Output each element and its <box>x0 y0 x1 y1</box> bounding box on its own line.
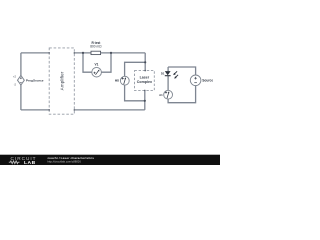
voltmeter V1 <box>92 62 102 77</box>
wire laser bottom drop <box>144 90 146 110</box>
svg-text:ProgSource: ProgSource <box>26 79 44 83</box>
svg-text:Complex: Complex <box>137 80 152 84</box>
svg-text:zouzhi / Laser characteristics: zouzhi / Laser characteristics <box>47 156 94 160</box>
wire node B bottom rail <box>21 109 145 111</box>
node junction laser top <box>144 61 146 63</box>
pin dot amplifier right bottom <box>74 109 76 111</box>
svg-text:A1: A1 <box>159 93 163 97</box>
behavioral source ProgSource <box>13 75 44 87</box>
pin dot amplifier left bottom <box>48 109 50 111</box>
footer bar <box>0 155 220 165</box>
photodiode D1 <box>161 71 178 79</box>
svg-text:LAB: LAB <box>24 160 36 165</box>
svg-text:V1: V1 <box>94 62 98 66</box>
wire meter branch horizontal top <box>125 62 146 76</box>
wire left rail <box>20 53 22 110</box>
svg-text:http://circuitlab.com/c88826: http://circuitlab.com/c88826 <box>47 160 81 164</box>
voltmeter MD across laser <box>115 76 129 85</box>
svg-text:Amplifier: Amplifier <box>59 71 64 90</box>
node junction left of R <box>82 52 84 54</box>
ammeter A1 <box>159 90 172 99</box>
resistor R test <box>90 41 102 55</box>
CircuitLab logo <box>9 156 37 166</box>
wire node A top rail <box>21 52 145 54</box>
wire diode top stub <box>167 67 169 71</box>
amplifier box <box>49 48 74 114</box>
svg-text:800 mΩ: 800 mΩ <box>90 45 102 49</box>
pin dot amplifier right top <box>74 52 76 54</box>
pin dot laser bottom <box>144 90 146 92</box>
svg-text:Source: Source <box>202 79 213 83</box>
svg-text:MD: MD <box>115 79 119 83</box>
wire right loop bottom <box>168 86 196 103</box>
voltage source Source <box>190 75 213 86</box>
laser complex subcircuit box <box>135 71 155 91</box>
wire diode to ammeter <box>167 76 169 91</box>
pin dot amplifier left top <box>48 52 50 54</box>
wire laser top drop <box>144 53 146 71</box>
wire V1 branch left <box>83 53 92 72</box>
node junction laser bottom <box>144 100 146 102</box>
wire V1 branch right <box>102 53 112 72</box>
node junction right of R <box>110 52 112 54</box>
pin dot laser top <box>144 70 146 72</box>
svg-text:D1: D1 <box>161 72 165 76</box>
wire meter branch bottom <box>125 85 145 101</box>
wire right loop top <box>168 67 196 75</box>
